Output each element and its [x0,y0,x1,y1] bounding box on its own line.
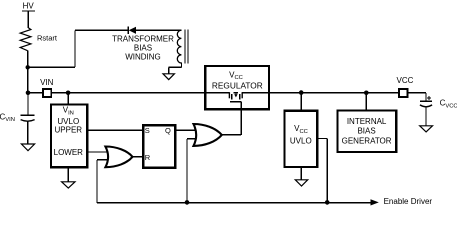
wire bottom rail [97,202,371,204]
wire winding to ground [180,63,182,68]
or-gate OR1 [105,147,132,168]
wire latch Q to OR2 [175,129,199,131]
svg-text:Rstart: Rstart [37,34,58,43]
capacitor C_VCC top plate [420,100,432,102]
svg-text:INTERNAL: INTERNAL [347,117,387,126]
wire corner up [74,30,76,67]
wire rail to VCC UVLO box [300,93,302,111]
node junction dot bottom rail OR2 [185,200,190,205]
capacitor C_VIN top plate [21,114,35,116]
wire diode to winding [136,29,182,31]
transistor M1 bar1 [231,94,233,100]
wire main VIN rail left [28,92,229,94]
block U5 INTERNAL BIAS GENERATOR box [337,111,396,153]
wire LOWER to OR1 [87,151,108,153]
wire VIN UVLO box to ground [67,167,69,182]
svg-text:VCC: VCC [397,76,414,85]
svg-text:UVLO: UVLO [57,117,79,126]
svg-text:S: S [145,126,150,135]
wire main VCC rail right [242,92,426,94]
wire OR1 lower input stub [97,159,108,161]
svg-text:HV: HV [23,2,35,11]
wire rail to bias generator [365,93,367,111]
arrow Enable Driver [371,199,379,205]
wire corner to diode [75,29,128,31]
node junction dot rail to VIN UVLO [66,91,71,96]
terminal VIN square [43,89,51,97]
or-gate OR2 [194,124,222,146]
transistor M1 bar2 [239,94,241,100]
wire OR2 output up to gate [240,102,242,135]
inductor bias winding coil [177,30,181,63]
wire Rstart bottom to node A [27,51,29,93]
transistor M1 top tee and bulk arrow [234,92,239,94]
svg-text:WINDING: WINDING [125,53,161,62]
transistor M1 pass FET left lead [228,92,230,98]
svg-text:UPPER: UPPER [55,126,83,135]
ground (bias winding) [163,74,174,80]
transistor M1 right lead [241,92,243,98]
ground (VCC UVLO) [295,180,307,186]
terminal VCC square [399,89,407,97]
ground (VIN UVLO) [62,182,75,188]
wire HV to Rstart [27,11,29,28]
wire VCC UVLO output down [326,139,328,204]
node A junction dot (Rstart / bias winding) [26,65,30,69]
wire C_VIN to ground [27,122,29,145]
wire OR2 lower input vertical [186,139,188,203]
ground (C_VIN) [21,144,34,151]
wire OR1 output to latch R [132,156,143,158]
transistor M1 gate line [230,101,241,103]
block U3 VCC REGULATOR box [205,66,269,109]
wire OR2 lower input stub [187,138,199,140]
wire node A to corner [28,66,75,68]
svg-text:VIN: VIN [40,78,54,87]
block U1 VIN UVLO box [51,105,87,168]
capacitor C_VIN curved plate [21,120,35,122]
svg-text:R: R [145,153,151,162]
svg-text:BIAS: BIAS [357,127,375,136]
wire OR2 output [222,134,242,136]
svg-text:REGULATOR: REGULATOR [212,80,263,90]
wire C_VCC to ground [425,107,427,126]
diode D1 arrow [129,27,136,34]
svg-text:Enable Driver: Enable Driver [384,197,433,206]
block U4 VCC UVLO box [284,111,317,167]
node junction dot bottom rail enable [325,200,330,205]
node junction dot rail to VCC UVLO [299,90,304,95]
wire UPPER to latch S [87,129,143,131]
ground (C_VCC) [420,126,433,132]
latch U2 SR box [143,125,175,168]
wire VCC UVLO to ground [300,167,302,180]
resistor Rstart [20,28,31,51]
wire rail to VIN UVLO box [67,93,69,105]
node junction dot rail to bias generator [364,91,369,96]
capacitor C_VCC plus sign [427,97,431,99]
transformer core lines [184,29,186,63]
wire OR1 lower input vertical [96,160,98,203]
svg-text:GENERATOR: GENERATOR [342,137,392,146]
wire VCC UVLO output [317,138,327,140]
diode D1 cathode bar [127,27,129,34]
capacitor C_VCC curved plate [420,105,432,107]
capacitor C_VIN top lead [27,93,29,115]
node HV terminal bar [22,10,35,12]
svg-text:BIAS: BIAS [134,44,152,53]
svg-text:LOWER: LOWER [54,148,84,157]
svg-text:UVLO: UVLO [290,137,312,146]
svg-text:Q: Q [165,126,171,135]
capacitor C_VCC lead [425,93,427,101]
node VIN rail junction dot (C_VIN / HV) [26,91,31,96]
svg-text:TRANSFORMER: TRANSFORMER [112,35,174,44]
